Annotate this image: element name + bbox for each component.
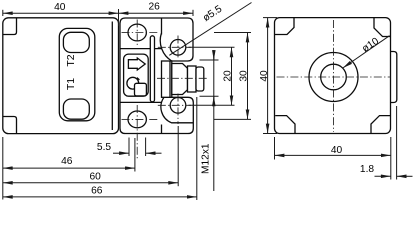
right view hole circle [321,64,347,90]
centerline side hole bottom vertical [136,105,138,160]
centerline flange hole top horizontal [158,46,191,48]
side view hole top [128,24,146,41]
dim 40 top extension left [2,10,4,16]
connector M12 thread [188,66,197,92]
svg-text:66: 66 [91,186,103,197]
dim 46 extension right [134,138,136,172]
side view section line bottom [120,101,162,103]
right view corner relief bottom-left [275,116,295,134]
svg-text:5.5: 5.5 [97,142,111,153]
front view corner step bottom-left [3,117,17,134]
dim 60 line [3,182,178,184]
centerline side hole top horizontal [122,32,159,34]
dim 40 bottom extension left [274,137,276,160]
dim 20 line [231,47,233,105]
dim M12 extension top [200,59,219,61]
connector M12 nut [172,64,188,95]
dim M12 arrow top [213,51,215,60]
centerline flange hole bottom vertical [177,94,179,125]
side view flange hole top [170,40,186,56]
svg-text:T1: T1 [65,78,77,90]
svg-text:ø5.5: ø5.5 [201,4,224,25]
connector M12 tip [196,67,204,91]
svg-text:M12x1: M12x1 [200,143,211,174]
side view section line top [120,48,162,50]
side view slot bar [150,36,154,102]
icon key [127,77,146,96]
svg-text:ø10: ø10 [360,36,381,55]
centerline side hole top vertical [136,20,138,48]
dim 46 line [3,167,135,169]
svg-text:60: 60 [90,171,102,182]
dim 66 extension right [196,97,198,200]
dim 30 extension bottom [214,118,251,120]
side view hole bottom [128,111,146,128]
side view flange hole bottom [170,98,186,114]
dim 1.8 extension right [396,106,398,180]
svg-text:26: 26 [149,2,161,13]
front view button bottom [63,99,89,119]
dim 40 top line [3,12,119,14]
dim M12 extension bottom [200,95,219,97]
connector M12 collar inner line [169,61,171,97]
dim 40 vert extension top [263,17,277,19]
centerline right view horizontal [277,76,391,78]
dim 30 line [247,33,249,120]
svg-text:T2: T2 [65,54,77,66]
dim 1.8 line left [375,175,391,177]
centerline right view vertical [333,20,335,132]
right view outer circle [309,53,358,102]
right view corner relief top-right [374,18,390,37]
dim 20 extension bottom [189,104,235,106]
dim M12 arrow bottom [213,96,215,105]
svg-text:20: 20 [222,70,233,82]
dim 5.5 extension right [145,138,147,157]
side view seam [161,18,163,35]
centerline flange hole top vertical [177,36,179,60]
dim 60 extension right [177,126,179,186]
dim 40 vert line [267,18,269,134]
dim 5.5 line right [146,152,162,154]
side view outline [120,18,193,134]
right view corner relief top-left [275,18,294,35]
front view body [3,18,119,134]
centerline connector horizontal [157,77,207,79]
dim M12 line [213,50,215,191]
svg-text:40: 40 [331,145,343,156]
dim 26 top line [119,12,194,14]
side view icon panel [124,54,149,96]
dim 1.8 line right [397,175,413,177]
centerline side hole bottom horizontal [122,118,159,120]
centerlines dash-dot [122,20,391,161]
dim 66 line [3,196,197,198]
dim 40/26 shared extension [118,9,120,26]
right view side tab [391,52,397,103]
dim o5.5 leader [169,3,251,56]
svg-text:40: 40 [54,2,66,13]
dim 40 bottom / 1.8 shared extension [390,137,392,180]
front view corner step top-left [3,18,17,34]
centerline flange hole bottom horizontal [158,104,191,106]
right view corner relief bottom-right [371,116,390,134]
dim 5.5 extension left [128,138,130,157]
dim 46 extension left full [2,137,4,200]
dim 30 extension top [214,32,251,34]
front view button top [63,32,89,52]
dim 40 bottom line [275,154,391,156]
dim 40 vert extension bottom [263,133,277,135]
right view body [275,18,391,134]
dim o10 leader [343,36,390,68]
svg-text:1.8: 1.8 [360,164,374,175]
svg-text:46: 46 [61,156,73,167]
dim 5.5 line left [113,152,129,154]
connector M12 collar [162,61,172,97]
dim 26 extension right [192,10,194,16]
svg-text:30: 30 [238,70,249,82]
dim 20 extension top [189,46,235,48]
svg-text:40: 40 [259,70,270,82]
icon arrow [128,58,145,70]
front view button panel [59,28,95,120]
front view inner edge line [111,22,113,131]
